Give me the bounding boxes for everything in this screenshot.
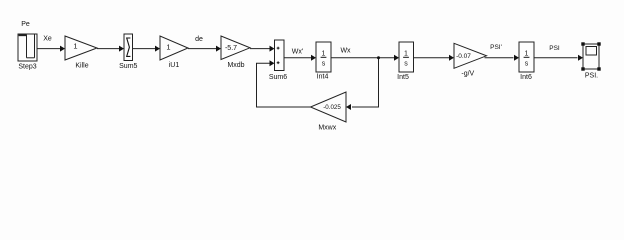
- svg-text:Int6: Int6: [520, 74, 532, 81]
- svg-text:Wx': Wx': [292, 48, 303, 55]
- svg-text:de: de: [195, 36, 203, 43]
- svg-text:Sum5: Sum5: [119, 63, 137, 70]
- svg-text:1: 1: [166, 43, 170, 52]
- svg-text:PSI: PSI: [549, 45, 560, 52]
- svg-text:Kille: Kille: [75, 63, 88, 70]
- svg-text:Int5: Int5: [397, 74, 409, 81]
- svg-text:s: s: [322, 61, 326, 68]
- svg-text:-0.07: -0.07: [456, 53, 471, 60]
- svg-text:Int4: Int4: [317, 74, 329, 81]
- svg-text:Xe: Xe: [43, 36, 52, 43]
- svg-text:Pe: Pe: [21, 21, 30, 28]
- svg-text:s: s: [525, 61, 529, 68]
- svg-text:1: 1: [322, 51, 326, 58]
- svg-text:PSI': PSI': [490, 44, 502, 51]
- svg-text:1: 1: [73, 42, 77, 51]
- svg-text:PSI.: PSI.: [585, 72, 598, 79]
- svg-text:1: 1: [525, 51, 529, 58]
- svg-text:Mxwx: Mxwx: [318, 124, 336, 131]
- svg-text:1: 1: [404, 51, 408, 58]
- svg-text:Sum6: Sum6: [269, 74, 287, 81]
- svg-text:-5.7: -5.7: [225, 45, 237, 52]
- svg-text:s: s: [404, 61, 408, 68]
- svg-text:iU1: iU1: [169, 62, 180, 69]
- svg-text:-0.025: -0.025: [323, 104, 341, 111]
- svg-text:Mxdb: Mxdb: [227, 62, 244, 69]
- svg-text:-g/V: -g/V: [461, 71, 474, 78]
- svg-text:Step3: Step3: [18, 64, 36, 71]
- svg-text:Wx: Wx: [340, 48, 351, 55]
